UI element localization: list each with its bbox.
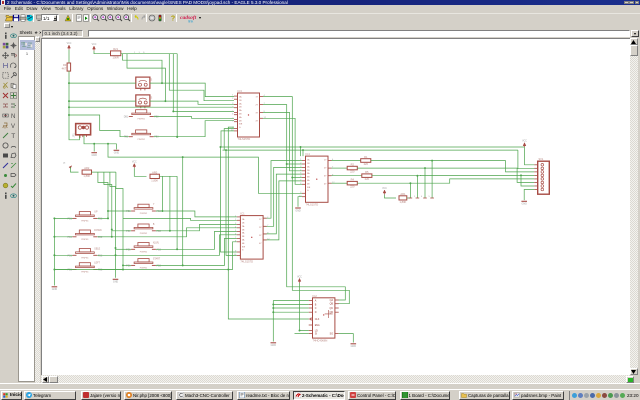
svg-text:VCC: VCC [132,162,137,164]
wire VCC4 to AR1 [385,195,397,198]
svg-text:GND: GND [113,281,119,284]
svg-text:QC: QC [330,307,334,310]
VCC symbol near R21 [92,44,97,51]
wire rail 2 [223,149,518,151]
VCC symbol at AR1 [382,188,387,195]
svg-text:PINPB1: PINPB1 [137,119,145,121]
svg-text:74LS157D: 74LS157D [240,259,253,263]
wire AR1 pullup at 416.9 [416,176,418,198]
svg-text:GND: GND [92,154,98,157]
svg-text:QB: QB [330,303,334,306]
wire L1 right to lane [97,217,108,219]
wire rail drop to IC4 vcc [300,147,302,156]
IC U-IC4 74LS157D [299,152,335,206]
svg-text:SO: SO [330,333,334,336]
svg-text:220: 220 [350,170,355,174]
junction lane2 L-row2 [111,236,113,238]
svg-text:DB1: DB1 [124,117,129,119]
junction left rail / S2 row [68,100,70,102]
wire IC3 1Y down to IC2-shift QB [263,97,349,304]
ground GND8 [351,344,357,348]
svg-text:SV1: SV1 [539,158,544,161]
wire AR0 lane3 [176,176,178,249]
resistor R4 [347,178,357,189]
horizontal scrollbar [41,375,630,383]
svg-text:IC2: IC2 [313,294,318,298]
junction pullup 431.6 [431,160,433,162]
junction L-net tap [107,143,109,145]
VCC symbol at IC2 [297,276,302,283]
junction rail2 drop [225,149,227,151]
wire L-button rail to GND3 [53,218,55,285]
wire L-net lane4 [182,157,184,265]
ground GND7 [271,343,277,347]
svg-text:R4: R4 [351,178,355,182]
junction L rail 236.3 [53,236,55,238]
wire left rail to lower button left pin [69,115,129,137]
junction rail1 drop [220,146,222,148]
junction lane2 R-row2 [111,229,113,231]
wire branch to SV1 pin7 [521,175,534,186]
wire JP1 pin2 to GND2 [84,135,116,149]
wire R2 right pre [156,230,170,232]
wire AR2 lane2 [104,172,112,237]
svg-text:PINPB2: PINPB2 [140,252,148,254]
svg-text:6: 6 [232,113,234,115]
wire rail2 down to IC1 G pin [226,150,237,255]
wire VCC to SV1 pin1 [525,147,535,165]
svg-text:link: link [188,20,194,24]
svg-text:PINPB1: PINPB1 [81,258,89,260]
wire AR0 lane2 [169,176,171,231]
wire VCC2 to R21 [94,51,111,54]
svg-text:GND: GND [295,209,301,212]
junction drop B [164,100,166,102]
taskbar [0,389,640,400]
wire IC2 C [273,307,308,309]
svg-text:QA: QA [330,299,334,302]
wire IC2 B [273,304,308,306]
svg-text:GND: GND [52,288,58,291]
ground GND6 [521,201,527,205]
resistor array AR2 [82,166,91,178]
junction 2Y to IC4 pin2 [286,163,288,165]
svg-text:GND: GND [522,203,528,206]
svg-text:4: 4 [421,196,423,198]
svg-text:V: V [11,124,15,129]
wire L net to IC4 pin9 [108,144,302,194]
wire L1 to IC1 pin2 [123,218,237,220]
junction upper button2 net [176,136,178,138]
wire VCC5 to IC2 LD [300,283,309,331]
wire R3 left [116,248,132,250]
svg-text:VCC: VCC [522,141,527,143]
resistor R2 [347,163,357,174]
wire VCC1 to R3 top [68,50,70,63]
svg-text:SI: SI [315,333,318,336]
wire IC3 2Y down to IC2-shift QA [263,105,345,300]
junction drop E [176,136,178,138]
resistor R1 [361,155,371,166]
wire R1 to SV1 pin3 [371,161,534,172]
junction lane3 R-row3 [115,247,117,249]
svg-text:Y: Y [153,204,155,206]
wire AR2 lane3 to GND4 [110,172,116,278]
button L1 UP [68,211,103,222]
svg-text:74LS157D: 74LS157D [306,203,319,207]
wire L2 right to lane [97,236,112,238]
menu bar [0,5,640,12]
svg-text:100R: 100R [113,56,119,60]
button L4 LEFT [68,263,103,274]
ground GND5 below IC4 [295,208,301,212]
svg-text:IC4: IC4 [306,152,311,156]
svg-text:PINPB1: PINPB1 [81,221,89,223]
wire R1 right pre [156,210,163,212]
svg-text:C: C [315,307,317,310]
wire upper button2 to IC3 pin13 [154,121,234,137]
toolbar row 1 [0,13,640,22]
junction lane3 L-row3 [115,254,117,256]
svg-text:1,80K: 1,80K [83,174,90,178]
wire R2 to IC1 pin3 [170,224,237,230]
svg-text:R2: R2 [351,163,355,167]
wire AR1 right pin [407,197,411,199]
junction lane4 START row [182,264,184,266]
svg-text:PINPB2: PINPB2 [140,233,148,235]
wire IC4 2Y to R2 [332,167,348,169]
coordinate bar [41,30,640,39]
svg-text:GND: GND [271,344,277,347]
svg-text:R5: R5 [365,170,369,174]
wire IC1 4Y riser to IC4 pin7 [263,181,302,240]
sheets panel [18,30,42,384]
junction LD vcc [299,330,301,332]
junction L rail 217.9 [53,217,55,219]
button R4 START [126,257,161,269]
svg-text:IC1: IC1 [240,212,245,216]
junction AR0 lane3 [176,248,178,250]
wire AR0 out [159,175,177,177]
wire R4 right pre [156,264,183,266]
button R1 Y [126,204,161,215]
svg-text:DOWN: DOWN [94,230,102,232]
wire IC2 SO to GND8 [339,334,354,343]
wire rail drop to IC4 gnd [302,150,304,156]
junction AR0 lane2 [169,230,171,232]
ground GND1 [91,153,97,157]
wire IC4 gnd pin down [298,197,302,207]
vertical scrollbar [630,38,639,375]
svg-text:VCC: VCC [67,43,72,45]
wire clock to IC2 CLK [228,270,308,320]
junction left rail / button row [68,114,70,116]
junction rail2 [302,149,304,151]
svg-text:GND: GND [114,152,120,155]
VCC symbol top-left [67,43,72,50]
svg-text:74HC4066N: 74HC4066N [313,338,328,342]
button L3 SELE [68,248,103,259]
svg-text:R21: R21 [113,47,118,51]
junction 1Y to IC4 pin6 [291,177,293,179]
svg-text:5: 5 [429,196,431,198]
wire IC3 gnd pin to rail1 [221,131,234,147]
svg-text:START: START [153,257,161,260]
resistor array AR1 [399,192,407,204]
svg-text:ENA: ENA [315,324,320,327]
wire rail1 down to IC1 S/E pin [221,147,237,252]
junction pullup 416.9 [416,175,418,177]
svg-text:R1: R1 [364,155,368,159]
wire R4 to SV1 pin5 [357,179,534,183]
switch S2 [136,95,153,108]
wire R21 drop D to pin11 row [172,54,174,112]
svg-text:PINPB1: PINPB1 [81,239,89,241]
wire left rail to IC3 pin6 [69,106,234,108]
svg-text:220: 220 [365,177,370,181]
wire IC3 G pin to rail2 [224,129,234,151]
svg-text:AR2: AR2 [84,166,90,170]
junction D rail [272,311,274,313]
wire AR2 out [92,171,116,173]
wire branch to IC4 pin6 [292,177,302,179]
wire IC3 pin S/E to clock rail [228,127,234,269]
svg-text:PINPB2: PINPB2 [137,139,145,141]
wire L4 to IC1 pin8 [228,242,237,270]
wire IC4 3Y to R5 [332,175,362,177]
junction drop A [161,82,163,84]
svg-text:AR1: AR1 [400,192,406,196]
svg-text:220: 220 [364,162,369,166]
toolbar row 2 button [4,23,10,28]
wire VCC rail [220,146,525,148]
button PINPB1 upper [124,110,160,121]
wire drop D to IC3 pin11 [173,110,234,112]
wire R2 to SV1 pin6 [357,168,534,182]
wire R5 to SV1 pin4 [372,174,534,176]
wire L2 to IC1 pin4 [112,228,237,237]
wire AR1 pullup at 431.6 [431,161,433,198]
VCC symbol at SV1 [522,141,527,148]
wire VCC3 to AR0 [134,168,146,176]
wire R21 drop B to S2 row [127,54,165,101]
resistor R5 [362,170,372,181]
wire IC3 4Y to IC4 pin8 [263,118,302,184]
junction drop D [172,110,174,112]
junction lane4 R-row4 [122,264,124,266]
resistor array AR0 [150,170,159,182]
wire L3 to IC1 pin6 [116,235,237,256]
title bar [0,0,640,5]
svg-text:4K7: 4K7 [62,66,67,70]
net label H with arrow [64,162,73,169]
svg-text:R3: R3 [63,63,67,67]
wire IC2 D [273,311,308,313]
junction C rail [272,307,274,309]
svg-text:X(LR): X(LR) [153,242,159,244]
wire left rail down to JP1 pin1 [69,71,79,140]
svg-text:PINPB2: PINPB2 [140,213,148,215]
IC U-IC3 74LS157D [231,89,267,141]
wire L4 right to lane [97,269,123,271]
svg-text:QD: QD [330,311,334,314]
svg-text:1,80K: 1,80K [400,200,407,204]
svg-text:IC3: IC3 [238,89,243,93]
svg-text:H: H [64,162,66,165]
junction pin7 branch [520,174,522,176]
wire H to AR2 [71,168,79,173]
svg-text:D: D [315,311,317,314]
wire left rail to S2 [69,100,136,102]
svg-text:1,80K: 1,80K [151,178,158,182]
svg-text:2: 2 [232,98,234,100]
svg-text:UP: UP [94,211,98,213]
svg-text:S: S [151,79,153,82]
wire AR1 pullup at 424.5 [424,168,426,198]
wire IC1 2Y riser to IC4 pin3 [263,167,302,226]
wire IC2 input rail to GND7 [272,301,274,342]
junction lane1 R-row1 [107,210,109,212]
junction A/B rail [272,304,274,306]
wire IC4 4Y to R4 [332,182,348,184]
wire R21 output [121,53,178,55]
resistor R3 (vertical) [62,63,71,71]
wire R21 drop A to S1 row [123,54,163,83]
svg-text:JP1: JP1 [73,133,76,138]
junction rail vcc [300,146,302,148]
svg-text:T: T [11,133,15,139]
wire R4 to IC1 pin7 [183,238,237,265]
svg-text:SELE: SELE [94,248,100,250]
junction lane4 L-row4 [122,269,124,271]
wire SV1 pin8 to GND6 [524,190,534,201]
wire IC1 3Y riser to IC4 pin5 [263,174,302,234]
IC U-IC2 74HC4066 [309,294,339,343]
wire R2 left [112,230,131,232]
junction left rail / S1 row [68,82,70,84]
wire AR2 lane1 [98,172,108,218]
connector SV1 [534,158,549,194]
junction GND1 branch [93,143,95,145]
button R2 B [126,224,161,235]
svg-text:VCC: VCC [297,276,302,278]
wire S1 to IC3 pin2 [150,83,234,97]
junction lane1 L-row1 [107,217,109,219]
svg-text:CLK: CLK [315,318,320,321]
ground GND3 [52,287,58,291]
svg-text:PINPB1: PINPB1 [81,272,89,274]
svg-text:C: C [179,393,183,398]
wire branch to IC4 pin2 [287,163,302,165]
junction L rail 269.0 [53,269,55,271]
junction lane4 top [182,156,184,158]
svg-text:74LS157D: 74LS157D [238,137,251,141]
svg-text:B: B [153,224,155,226]
wire R3 right pre [156,248,177,250]
wire R1 to IC1 pin1 [162,211,237,217]
wire R4 left [123,264,131,266]
wire left rail to S1 [69,82,136,84]
canvas with schematic [41,38,630,375]
switch S1 [136,77,153,90]
VCC symbol mid [132,162,137,169]
button PINPB2 upper [124,130,159,141]
wire IC2 A [273,300,308,302]
wire R21 drop E to lower button row [176,54,178,137]
ground GND4 [113,279,119,283]
junction pullup 409.9 [409,182,411,184]
button R3 X(LR) [126,242,161,253]
wire IC4 1Y to R1 [332,160,361,162]
svg-text:LEFT: LEFT [94,263,100,265]
wire AR2 lane4 [116,172,123,269]
ground GND2 [114,150,120,154]
svg-text:GND: GND [351,345,357,348]
svg-text:VCC: VCC [92,44,97,46]
wire AR1 pullup at 409.9 [409,183,411,198]
wire L3 right to lane [97,254,115,256]
button L2 DOWN [68,230,103,241]
IC U-IC1 74LS157D [234,212,271,264]
junction pullup 424.5 [424,167,426,169]
wire L4 left [54,269,72,271]
wire R3 to IC1 pin5 [177,231,237,249]
wire L3 left [54,254,72,256]
wire IC3 3Y to IC4 pin4 [263,112,302,170]
left command toolbar [0,30,18,384]
wire IC1 1Y riser to IC4 pin1 [263,161,302,219]
wire L2 left [54,236,72,238]
junction left rail / IC3 pin6 row [68,106,70,108]
junction L rail 254.8 [53,254,55,256]
wire rail2 to SV1 pin2 [518,150,534,169]
svg-text:220: 220 [350,185,355,189]
wire upper button1 to IC3 pin14 [154,117,234,119]
svg-text:VCC: VCC [382,188,387,190]
junction clock rail [227,269,229,271]
svg-text:N: N [11,114,15,119]
wire IC2 SI stub [295,333,309,335]
svg-text:AR0: AR0 [152,170,158,174]
wire LEFT row / clock long [54,269,228,271]
wire branch to GND1 [93,144,95,152]
resistor R21 [111,47,121,59]
wire R21 drop C to IC3 pin3 [169,54,234,101]
junction AR0 lane1 [161,210,163,212]
wire R1 left [108,210,131,212]
status bar [0,383,640,389]
pin header JP1 [73,124,91,138]
svg-text:S: S [151,96,153,99]
svg-text:?: ? [170,16,174,23]
wire AR0 lane1 [161,176,163,211]
wire S2 to IC3 pin5 [150,101,234,104]
wire L1 left [54,217,72,219]
